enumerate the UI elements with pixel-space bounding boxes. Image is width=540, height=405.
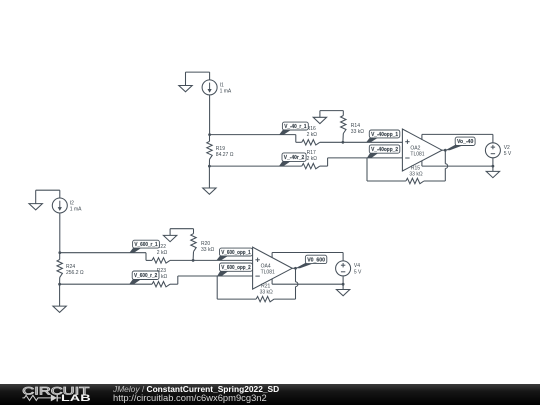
svg-text:33 kΩ: 33 kΩ: [409, 171, 422, 177]
svg-text:V_600_r_2: V_600_r_2: [134, 273, 157, 279]
svg-text:2 kΩ: 2 kΩ: [157, 250, 168, 256]
svg-text:V_600_opp_2: V_600_opp_2: [221, 265, 250, 271]
svg-text:V_-40r_2: V_-40r_2: [284, 155, 305, 161]
svg-text:2 kΩ: 2 kΩ: [307, 156, 318, 162]
svg-text:TL081: TL081: [261, 269, 275, 275]
svg-text:V2: V2: [504, 145, 510, 151]
svg-text:V_-40opp_1: V_-40opp_1: [371, 132, 398, 138]
svg-text:Vo_-40: Vo_-40: [457, 139, 473, 145]
svg-text:V_-40_r_1: V_-40_r_1: [284, 124, 306, 130]
svg-text:1 mA: 1 mA: [220, 89, 232, 95]
svg-text:V_-40opp_2: V_-40opp_2: [371, 147, 398, 153]
svg-text:33 kΩ: 33 kΩ: [260, 289, 273, 295]
svg-text:33 kΩ: 33 kΩ: [201, 247, 214, 253]
svg-text:5 V: 5 V: [504, 151, 512, 157]
svg-text:1 mA: 1 mA: [70, 207, 82, 213]
svg-text:V4: V4: [354, 263, 360, 269]
svg-text:V_600_r_1: V_600_r_1: [134, 242, 157, 248]
svg-text:I1: I1: [220, 82, 224, 88]
svg-text:V_600_opp_1: V_600_opp_1: [221, 250, 250, 256]
svg-text:2 kΩ: 2 kΩ: [307, 132, 318, 138]
svg-text:5 V: 5 V: [354, 269, 362, 275]
svg-text:LAB: LAB: [61, 393, 91, 403]
svg-text:V0_600: V0_600: [307, 257, 325, 263]
svg-text:84.27 Ω: 84.27 Ω: [216, 152, 234, 158]
svg-text:256.2 Ω: 256.2 Ω: [66, 270, 84, 276]
svg-text:I2: I2: [70, 201, 74, 207]
svg-text:TL081: TL081: [410, 151, 424, 157]
svg-text:33 kΩ: 33 kΩ: [351, 129, 364, 135]
